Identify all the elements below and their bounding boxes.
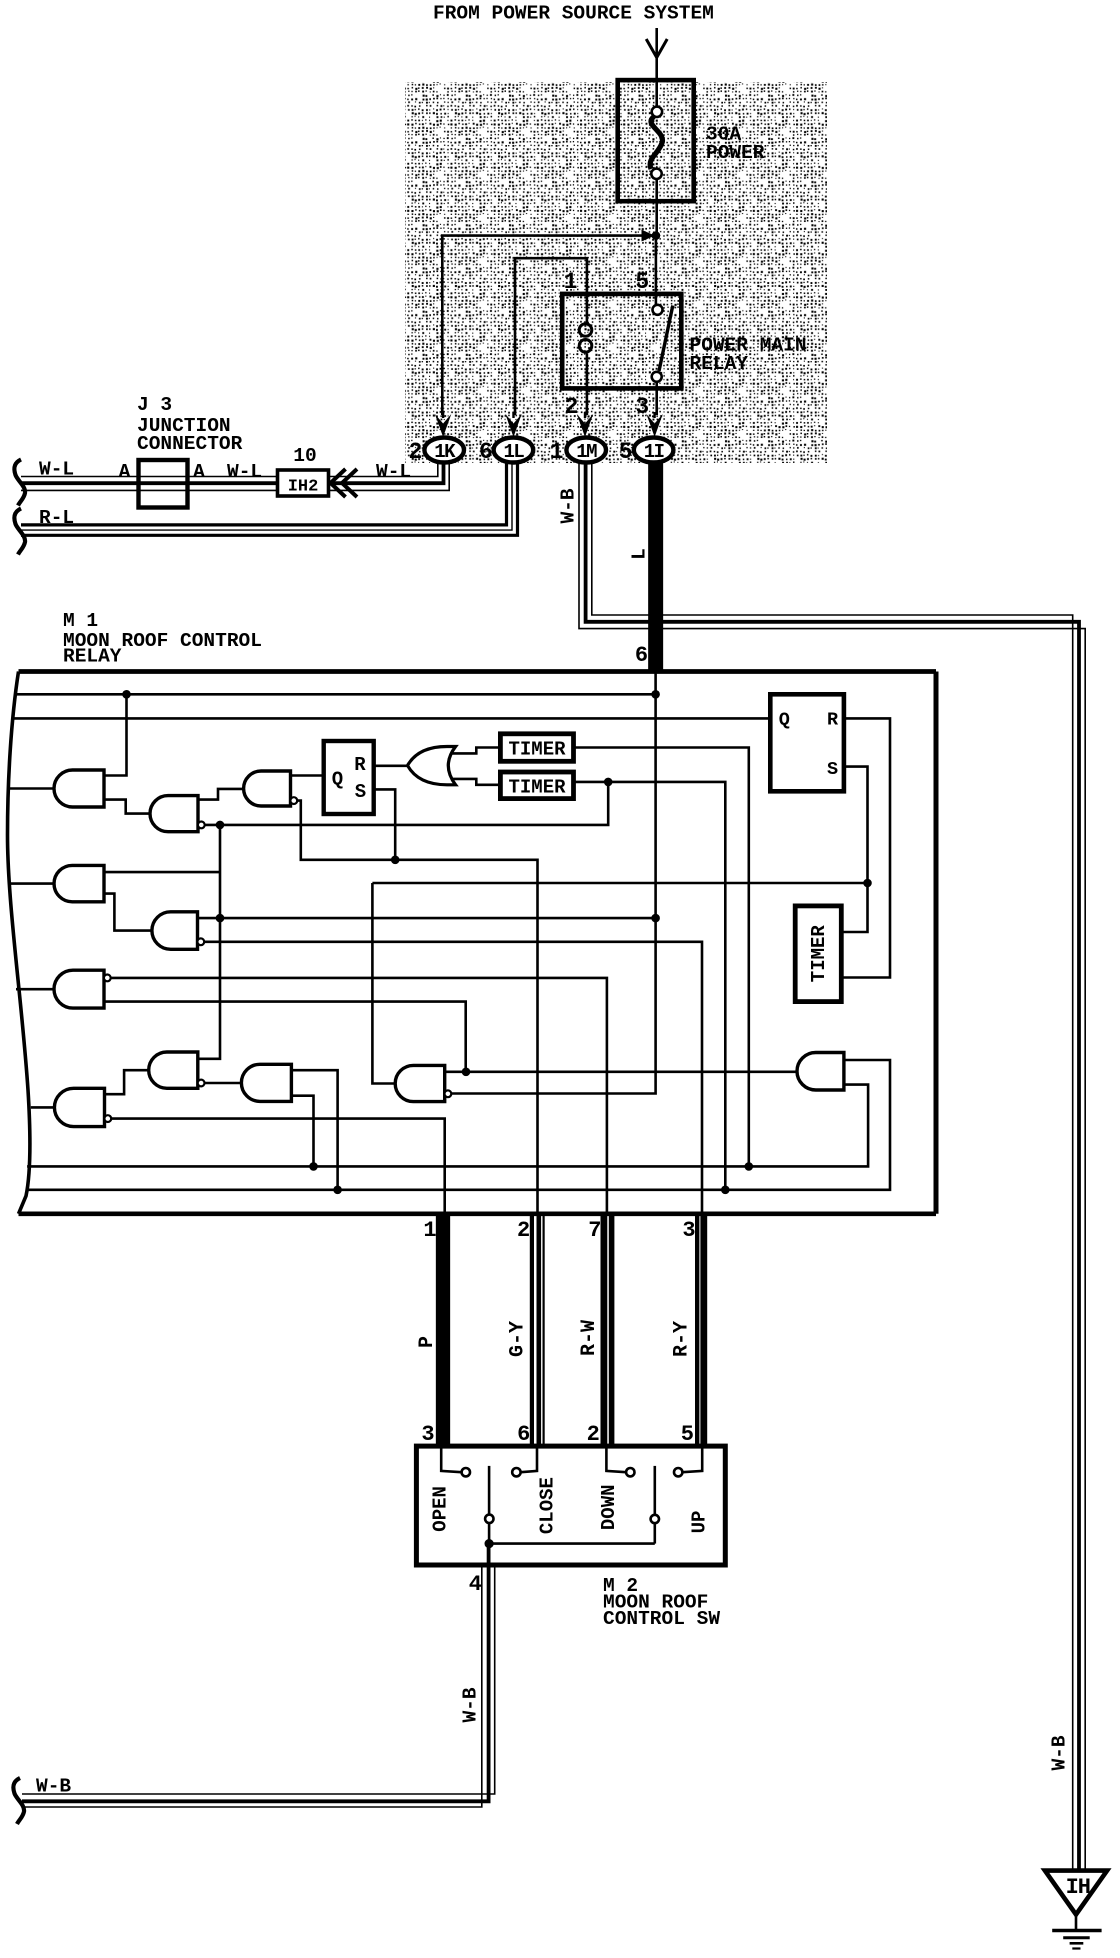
svg-text:IH2: IH2 xyxy=(288,478,319,497)
svg-text:1: 1 xyxy=(550,439,564,465)
relay switch blade xyxy=(659,306,673,372)
wire gate D top stub xyxy=(104,871,220,874)
wire U1 R output to OR gate xyxy=(374,764,409,767)
wire gate F input from edge xyxy=(16,988,56,991)
wire junction to relay pin 5 xyxy=(655,236,658,305)
wire gate C bubble to pin 2 rail xyxy=(294,801,538,1215)
wire gate E bubble rail to pin 3 xyxy=(201,942,702,1215)
wire gate D output to edge xyxy=(9,882,56,885)
wire vertical interconnect x219 xyxy=(198,825,220,1059)
timer T2 box xyxy=(500,772,573,799)
wire G-Y from M1 pin 2 to switch xyxy=(530,1216,534,1446)
flip-flop U2 Q R S box xyxy=(770,694,844,791)
wire pin3 to OPEN contact xyxy=(441,1446,461,1472)
wire from power source into fuse xyxy=(655,28,658,82)
wire relay contact to pin 3 xyxy=(655,382,658,415)
wire gate E top rail xyxy=(197,917,655,920)
svg-text:Q: Q xyxy=(332,769,343,791)
junction of fuse feed xyxy=(652,231,661,240)
contact CLOSE xyxy=(512,1468,520,1476)
svg-text:DOWN: DOWN xyxy=(598,1484,620,1530)
junction rail1166 gate H stub xyxy=(309,1162,318,1171)
nand-gate B xyxy=(150,796,198,832)
wire gate B to gate C xyxy=(198,789,245,800)
svg-text:5: 5 xyxy=(681,1422,694,1447)
wire gate A output to edge xyxy=(9,787,57,790)
wire W-L from edge through J3 to connector 1K xyxy=(21,462,438,477)
wire gate F lower stub xyxy=(104,1002,466,1072)
arrow into connector 1L xyxy=(505,414,521,437)
connector 1M xyxy=(566,438,606,463)
shaded engine-compartment region xyxy=(405,82,827,463)
svg-text:1I: 1I xyxy=(644,441,664,463)
ground bar 3 xyxy=(1070,1942,1084,1945)
wire P from M1 pin 1 to switch xyxy=(436,1216,450,1446)
connector 1I xyxy=(634,438,674,463)
wire gate A top input from top rail xyxy=(104,694,127,775)
svg-text:S: S xyxy=(355,781,366,803)
junction gate J stub rail xyxy=(462,1068,471,1077)
ground bar 4 xyxy=(1072,1947,1080,1949)
wire gate G bubble to gate H xyxy=(204,1082,243,1085)
wire gate C top stub to U1 xyxy=(291,774,324,777)
flip-flop U1 Q R S box xyxy=(324,741,374,814)
wire relay pin 2 to connector 1M xyxy=(586,388,589,415)
pole right contact ring xyxy=(651,1515,659,1523)
junction L and top rail xyxy=(651,690,660,699)
svg-text:G-Y: G-Y xyxy=(507,1321,530,1357)
connector IH2 chevrons xyxy=(331,469,358,497)
wire T2 output down to lower rail xyxy=(574,782,726,1190)
svg-text:RELAY: RELAY xyxy=(63,646,122,668)
wire lower rail 1166 xyxy=(27,1085,868,1167)
ground stem xyxy=(1075,1915,1078,1930)
wire gate H bottom stub xyxy=(291,1096,313,1167)
wire pin5 to UP contact xyxy=(682,1446,702,1472)
wire pin2 to DOWN contact xyxy=(606,1446,626,1472)
wire W-B from pin 4 to left edge xyxy=(22,1544,489,1802)
svg-text:POWER: POWER xyxy=(706,142,765,164)
svg-text:6: 6 xyxy=(635,643,648,668)
arrowhead on power source wire xyxy=(646,39,667,58)
wire right pole to common xyxy=(653,1523,656,1543)
fuse 30A POWER box xyxy=(618,80,694,201)
wire x372 down to gate J xyxy=(372,883,397,1084)
junction connector J3 box xyxy=(139,460,188,508)
svg-text:10: 10 xyxy=(293,445,316,467)
wire OR bottom input to TIMER T2 xyxy=(452,779,500,785)
wire mid cross rail y883 xyxy=(372,882,867,885)
svg-text:3: 3 xyxy=(682,1218,695,1243)
ground bar 1 xyxy=(1052,1929,1101,1933)
wire gate J top stub to gate K xyxy=(445,1071,797,1074)
wire gate A to gate B xyxy=(104,800,152,814)
wire W-B from 1M to right edge xyxy=(592,462,1073,1870)
connector 1K xyxy=(424,438,464,463)
svg-text:RELAY: RELAY xyxy=(690,353,749,375)
ground IH triangle xyxy=(1045,1871,1107,1915)
svg-text:TIMER: TIMER xyxy=(508,776,566,798)
wire gate I input from edge xyxy=(31,1106,56,1109)
and-gate A xyxy=(54,770,104,807)
junction rail1190 gate H stub xyxy=(333,1186,342,1195)
svg-text:3: 3 xyxy=(635,394,649,420)
nand-gate F xyxy=(54,970,104,1008)
relay K1 POWER MAIN RELAY box xyxy=(562,294,681,389)
svg-text:FROM POWER SOURCE SYSTEM: FROM POWER SOURCE SYSTEM xyxy=(433,3,714,25)
wire gate I top stub to gate G xyxy=(105,1070,151,1094)
wire gate B bubble rail xyxy=(205,782,609,825)
wire T1 output down to lower rail xyxy=(574,748,749,1167)
svg-text:W-B: W-B xyxy=(460,1687,482,1722)
wire R-L from edge to connector 1L xyxy=(21,462,507,525)
wire lower rail 1190 xyxy=(26,1060,890,1190)
timer T1 box xyxy=(500,734,573,762)
arrow into connector 1K xyxy=(435,414,451,437)
wire branch to connector 1K xyxy=(442,236,656,415)
arrow into junction xyxy=(642,230,656,242)
contact OPEN xyxy=(462,1468,470,1476)
contact UP xyxy=(674,1468,682,1476)
svg-text:R: R xyxy=(354,754,366,776)
wire U1 S output down xyxy=(374,789,396,859)
svg-text:R-Y: R-Y xyxy=(671,1321,694,1357)
nand-gate I xyxy=(54,1088,104,1126)
svg-text:IH: IH xyxy=(1066,1875,1090,1900)
relay M1 box outline xyxy=(19,669,937,674)
wire second rail to U2 Q input xyxy=(13,717,770,720)
continuation brace W-L xyxy=(14,460,25,506)
svg-text:3: 3 xyxy=(421,1422,434,1447)
wire into fuse element xyxy=(655,82,658,107)
svg-text:OPEN: OPEN xyxy=(429,1486,451,1532)
wire fuse to junction xyxy=(655,179,658,236)
ground bar 2 xyxy=(1063,1936,1090,1939)
svg-text:1M: 1M xyxy=(576,441,597,463)
relay coil xyxy=(586,294,589,323)
svg-text:CONNECTOR: CONNECTOR xyxy=(137,433,243,455)
svg-text:7: 7 xyxy=(588,1218,601,1243)
wire R-W from M1 pin 7 to switch xyxy=(601,1216,608,1446)
and-gate K xyxy=(797,1053,844,1091)
svg-text:6: 6 xyxy=(517,1422,530,1447)
junction rail1190 T2 wire xyxy=(721,1186,730,1195)
nand-gate G xyxy=(149,1052,198,1088)
wire branch to connector 1L and relay pin 1 xyxy=(515,258,587,415)
and-gate D xyxy=(54,865,104,901)
svg-text:P: P xyxy=(416,1336,439,1348)
nand-gate E xyxy=(152,912,198,950)
svg-text:2: 2 xyxy=(517,1218,530,1243)
wire gate F bubble rail to pin 7 xyxy=(107,978,607,1215)
wire U2 R output to T3 xyxy=(841,718,890,977)
wire U2 S output to T3 xyxy=(841,767,867,932)
junction T2 rail and gate B rail xyxy=(604,778,613,787)
wire rail from L pin xyxy=(451,672,655,1094)
junction gate E rail x219 xyxy=(216,914,225,923)
junction mid rail at S2 wire xyxy=(863,879,872,888)
svg-text:1: 1 xyxy=(564,269,578,295)
nand-gate J xyxy=(395,1065,445,1101)
svg-text:CONTROL SW: CONTROL SW xyxy=(603,1608,720,1630)
wire gate D to gate E xyxy=(104,894,154,931)
svg-text:S: S xyxy=(827,759,838,780)
svg-text:6: 6 xyxy=(479,439,493,465)
svg-text:Q: Q xyxy=(779,709,790,730)
wire OR top input to TIMER T1 xyxy=(452,748,500,754)
svg-text:1: 1 xyxy=(423,1218,436,1243)
svg-text:UP: UP xyxy=(689,1511,711,1534)
svg-text:W-B: W-B xyxy=(558,488,580,523)
svg-text:R: R xyxy=(827,709,839,730)
svg-text:W-L: W-L xyxy=(376,461,411,483)
svg-text:5: 5 xyxy=(635,269,649,295)
wire pin6 to CLOSE contact xyxy=(521,1446,537,1472)
svg-text:L: L xyxy=(629,548,651,560)
svg-text:CLOSE: CLOSE xyxy=(537,1477,559,1534)
svg-text:A: A xyxy=(119,461,131,483)
relay switch contact top xyxy=(653,305,663,315)
pole right of switch xyxy=(653,1466,656,1515)
svg-text:2: 2 xyxy=(565,394,579,420)
wire pole to common xyxy=(488,1523,491,1543)
wire gate I bubble rail to pin 1 xyxy=(108,1119,445,1215)
svg-text:1L: 1L xyxy=(503,441,524,463)
arrow into connector 1I xyxy=(646,414,662,437)
pole left of switch xyxy=(488,1466,491,1515)
svg-text:1K: 1K xyxy=(434,441,456,463)
svg-text:4: 4 xyxy=(469,1572,482,1597)
junction gate E rail at L line xyxy=(651,914,660,923)
svg-text:W-B: W-B xyxy=(1049,1735,1071,1770)
svg-text:TIMER: TIMER xyxy=(508,739,566,761)
wire L from 1I to relay M1 pin 6 xyxy=(648,462,663,672)
nand-gate C xyxy=(244,771,291,806)
fuse element S-curve xyxy=(652,107,662,117)
svg-text:M 1: M 1 xyxy=(63,610,98,632)
arrow into connector 1M xyxy=(577,414,593,437)
connector IH2 box xyxy=(278,470,329,496)
contact DOWN xyxy=(626,1468,634,1476)
connector 1L xyxy=(494,438,534,463)
svg-text:W-B: W-B xyxy=(36,1776,71,1798)
svg-text:5: 5 xyxy=(619,439,633,465)
svg-text:2: 2 xyxy=(587,1422,600,1447)
svg-text:W-L: W-L xyxy=(227,461,262,483)
or-gate G1 pointing left xyxy=(408,747,456,785)
wire gate H top stub xyxy=(291,1070,337,1190)
timer T3 box xyxy=(795,906,841,1002)
svg-text:A: A xyxy=(193,461,205,483)
junction rail1166 T1 wire xyxy=(745,1162,754,1171)
svg-text:R-W: R-W xyxy=(578,1320,601,1356)
pole left contact ring xyxy=(485,1515,493,1523)
relay switch contact bottom xyxy=(652,372,662,382)
wire common bar xyxy=(489,1542,655,1545)
svg-text:J 3: J 3 xyxy=(137,394,172,416)
continuation brace R-L xyxy=(14,509,25,555)
junction common pole xyxy=(485,1539,494,1548)
wire top rail xyxy=(15,693,656,696)
switch M2 box xyxy=(416,1446,725,1565)
continuation brace W-B bottom xyxy=(13,1778,24,1824)
and-gate H xyxy=(241,1064,291,1101)
svg-text:TIMER: TIMER xyxy=(808,925,830,983)
junction S1 wire on pin2 rail xyxy=(391,856,400,865)
junction gate B rail xyxy=(216,821,225,830)
wire R-Y from M1 pin 3 to switch xyxy=(695,1216,699,1446)
junction top rail gate A xyxy=(122,690,131,699)
